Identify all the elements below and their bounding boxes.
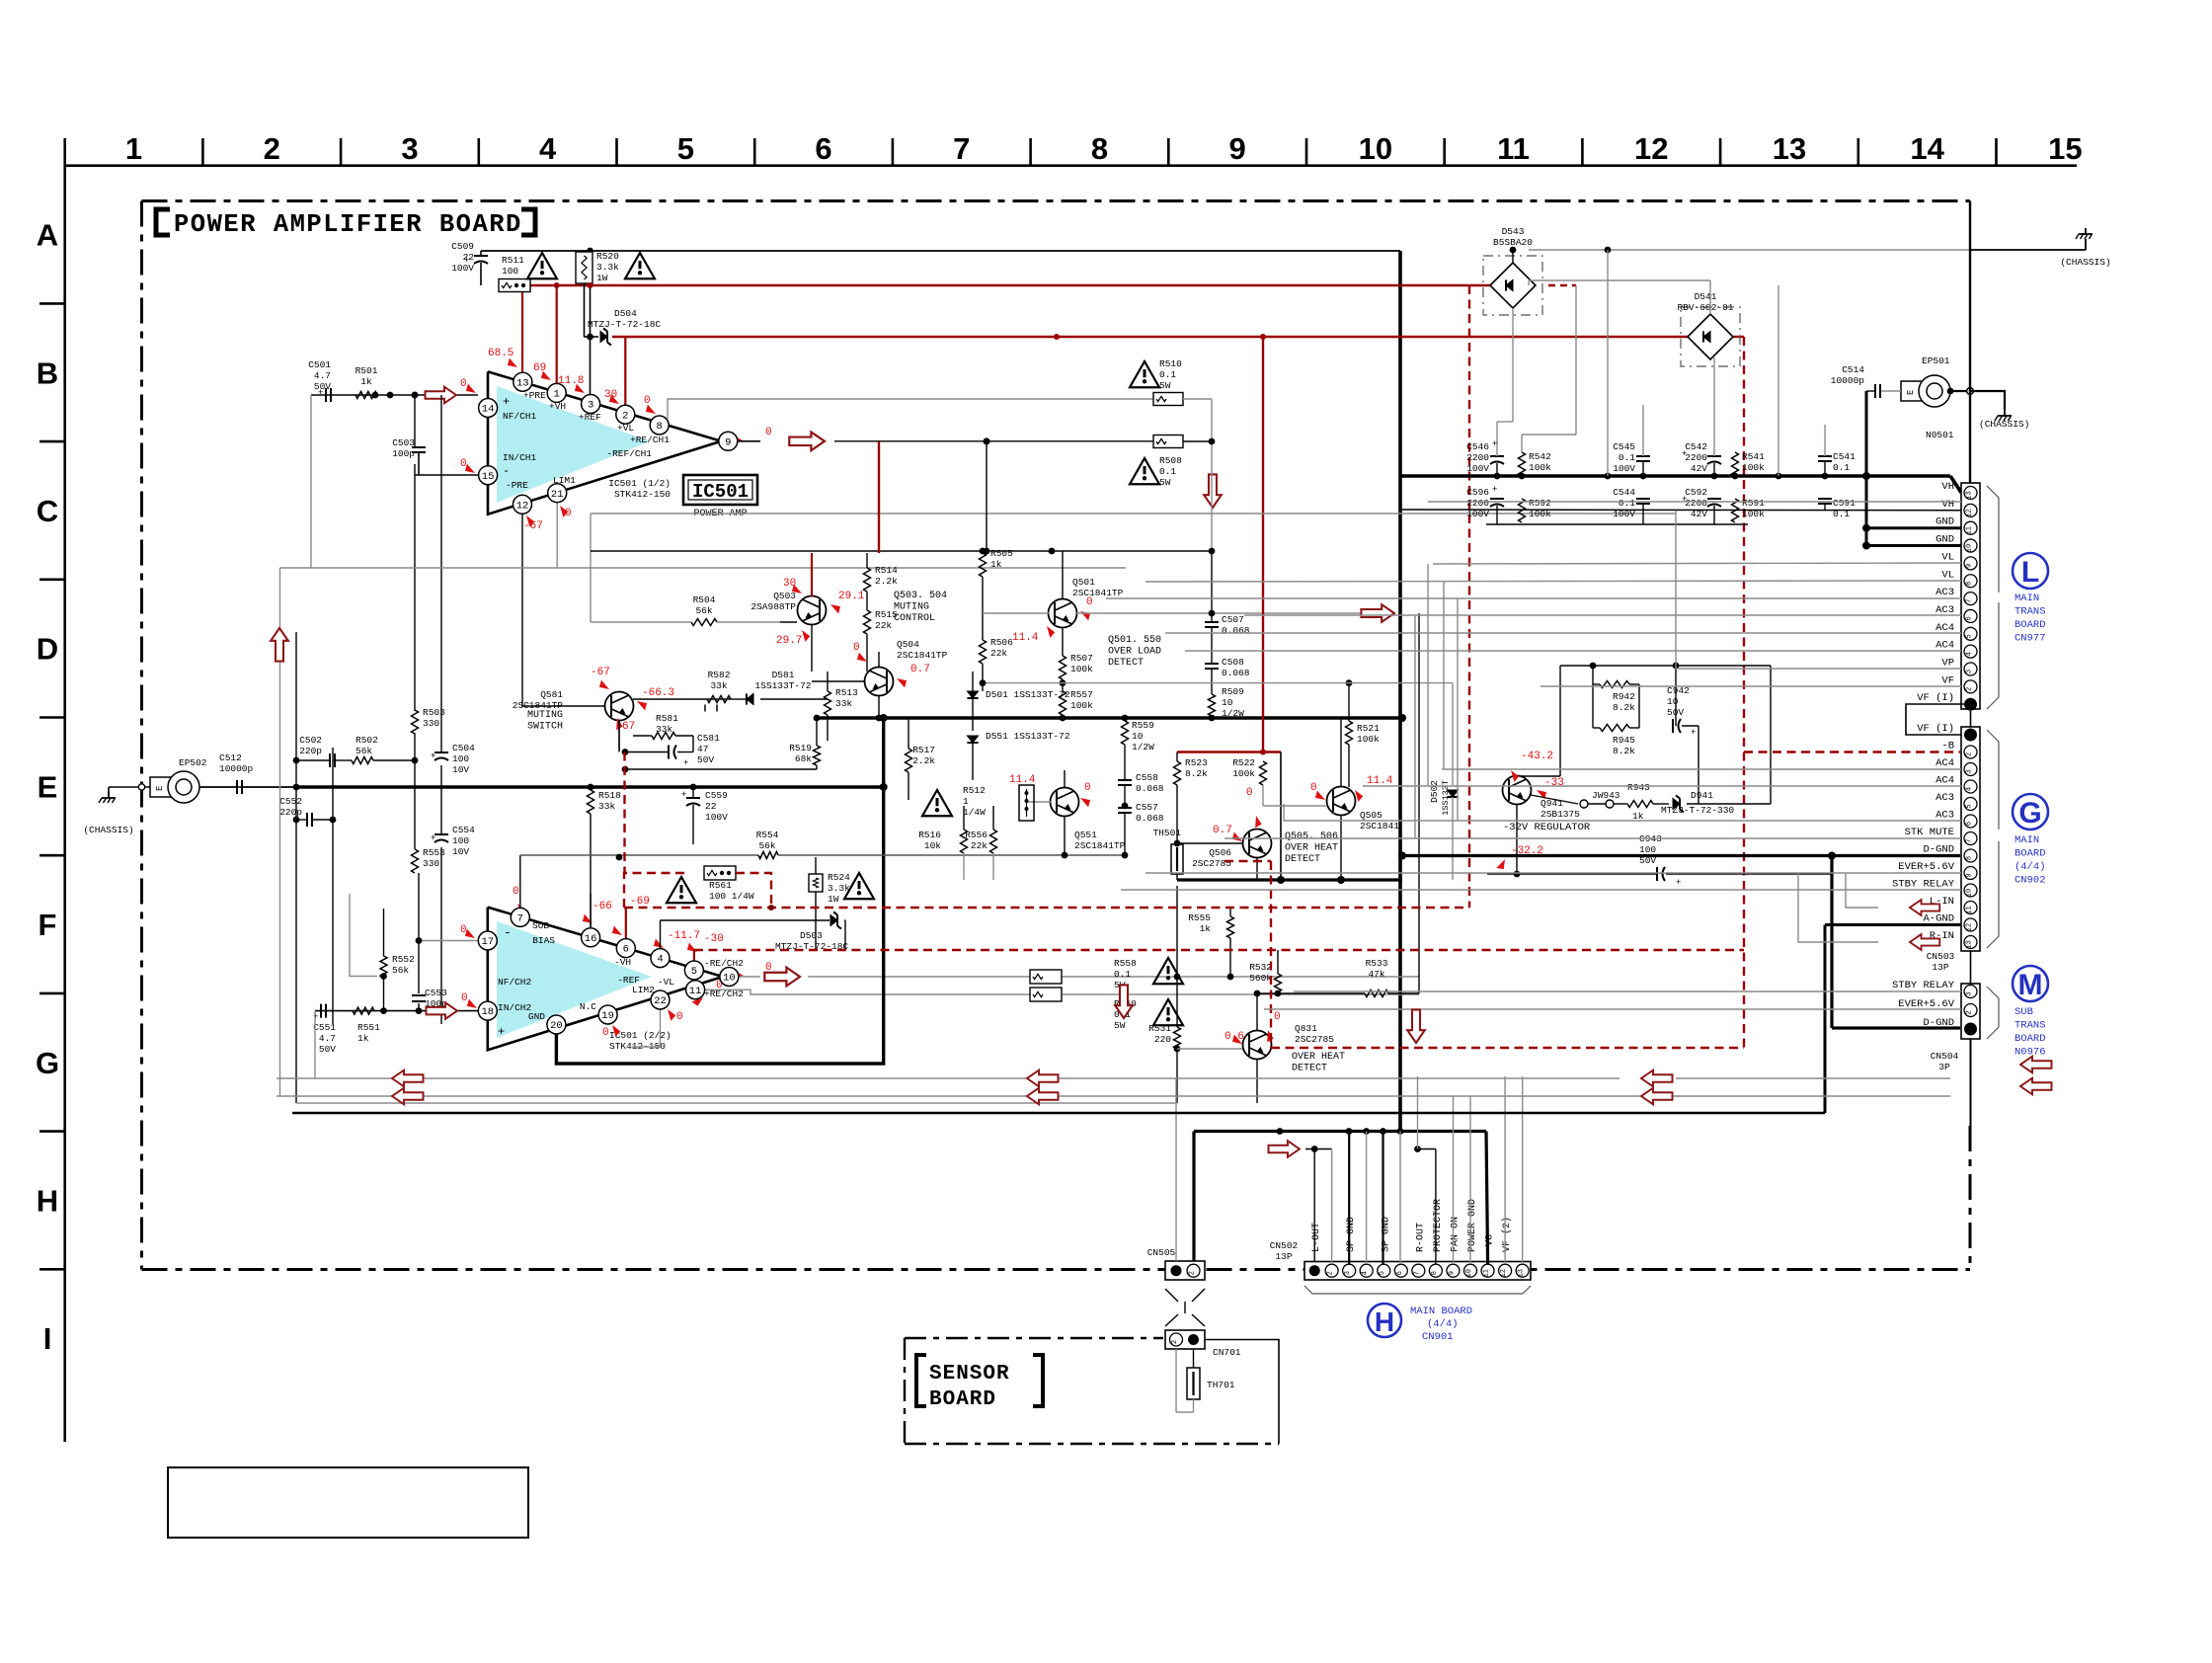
- svg-text:C514: C514: [1842, 364, 1864, 375]
- svg-text:+: +: [464, 256, 469, 266]
- svg-text:2: 2: [1966, 1010, 1974, 1014]
- svg-text:R559: R559: [1132, 720, 1154, 731]
- svg-text:6: 6: [815, 131, 831, 166]
- svg-text:5: 5: [1966, 804, 1974, 808]
- svg-text:VF (I): VF (I): [1917, 692, 1954, 704]
- svg-text:10000p: 10000p: [219, 763, 254, 774]
- svg-text:N0976: N0976: [2014, 1047, 2046, 1059]
- svg-text:9: 9: [1966, 564, 1974, 568]
- svg-text:TH701: TH701: [1207, 1380, 1235, 1390]
- svg-text:0.1: 0.1: [1833, 462, 1850, 473]
- svg-text:MUTING: MUTING: [894, 602, 929, 613]
- svg-text:15: 15: [2048, 131, 2082, 166]
- svg-text:11: 11: [1966, 526, 1974, 534]
- svg-text:33k: 33k: [598, 801, 615, 812]
- svg-text:2: 2: [264, 131, 280, 166]
- svg-text:10: 10: [1132, 731, 1144, 742]
- svg-text:560k: 560k: [1249, 973, 1272, 984]
- svg-text:-66: -66: [592, 901, 612, 912]
- svg-text:AC4: AC4: [1935, 622, 1954, 634]
- svg-text:Q501. 550: Q501. 550: [1108, 635, 1161, 646]
- svg-text:R524: R524: [828, 872, 850, 883]
- svg-text:42V: 42V: [1691, 463, 1707, 474]
- svg-text:0.1: 0.1: [1619, 498, 1635, 509]
- svg-text:L-OUT: L-OUT: [1311, 1223, 1322, 1252]
- svg-text:R519: R519: [789, 743, 812, 753]
- svg-text:-: -: [504, 925, 512, 940]
- svg-text:EP501: EP501: [1922, 356, 1950, 366]
- svg-text:D504: D504: [614, 308, 637, 319]
- svg-text:SUB: SUB: [532, 920, 549, 931]
- svg-text:EVER+5.6V: EVER+5.6V: [1898, 998, 1954, 1010]
- svg-text:3: 3: [1966, 991, 1974, 995]
- svg-text:B5SBA20: B5SBA20: [1493, 237, 1533, 248]
- svg-text:2200: 2200: [1466, 498, 1489, 509]
- svg-text:8: 8: [657, 421, 663, 433]
- svg-text:0: 0: [1274, 1011, 1281, 1023]
- svg-text:12: 12: [1634, 131, 1668, 166]
- svg-text:R513: R513: [835, 687, 858, 698]
- svg-text:+PRE: +PRE: [523, 390, 546, 401]
- svg-text:11: 11: [1497, 131, 1530, 166]
- svg-text:4.7: 4.7: [319, 1033, 336, 1044]
- svg-text:+: +: [431, 752, 435, 761]
- svg-text:D: D: [37, 632, 58, 667]
- svg-text:Q503: Q503: [773, 591, 796, 601]
- svg-text:7: 7: [1966, 838, 1974, 842]
- svg-text:CONTROL: CONTROL: [894, 613, 935, 624]
- svg-text:STK412-150: STK412-150: [614, 489, 671, 500]
- svg-text:BOARD: BOARD: [2014, 848, 2046, 860]
- svg-text:0: 0: [1310, 782, 1317, 794]
- svg-text:13: 13: [1966, 940, 1974, 948]
- svg-text:D-GND: D-GND: [1923, 844, 1954, 856]
- svg-text:FAN ON: FAN ON: [1451, 1217, 1461, 1252]
- svg-text:10: 10: [1966, 889, 1974, 897]
- svg-text:8.2k: 8.2k: [1185, 768, 1208, 779]
- svg-text:SENSOR: SENSOR: [929, 1363, 1010, 1386]
- svg-text:0.068: 0.068: [1136, 813, 1164, 824]
- svg-text:Q581: Q581: [540, 689, 563, 700]
- svg-text:-67: -67: [591, 667, 610, 678]
- svg-text:R942: R942: [1613, 691, 1635, 702]
- svg-text:C559: C559: [705, 790, 728, 801]
- svg-text:C512: C512: [219, 752, 242, 763]
- svg-text:GND: GND: [1935, 516, 1954, 528]
- svg-text:0: 0: [1246, 787, 1253, 799]
- svg-text:POWER GND: POWER GND: [1467, 1199, 1478, 1252]
- svg-text:N.C: N.C: [580, 1001, 596, 1012]
- svg-text:0.7: 0.7: [1213, 825, 1232, 836]
- svg-text:C508: C508: [1222, 657, 1244, 668]
- svg-text:0.7: 0.7: [910, 664, 930, 675]
- svg-text:TRANS: TRANS: [2014, 1020, 2046, 1032]
- svg-text:2: 2: [1171, 1340, 1179, 1344]
- svg-text:C501: C501: [308, 359, 331, 370]
- svg-text:8.2k: 8.2k: [1613, 746, 1635, 756]
- svg-text:-11.7: -11.7: [668, 930, 700, 942]
- svg-text:SP GND: SP GND: [1346, 1217, 1357, 1252]
- svg-text:100 1/4W: 100 1/4W: [709, 891, 754, 902]
- svg-text:12: 12: [1966, 509, 1974, 516]
- svg-text:R531: R531: [1148, 1023, 1171, 1034]
- svg-text:4: 4: [1966, 787, 1974, 791]
- svg-text:22k: 22k: [875, 620, 892, 631]
- svg-text:1W: 1W: [828, 894, 839, 905]
- svg-text:33k: 33k: [656, 724, 672, 735]
- svg-text:C596: C596: [1466, 487, 1489, 498]
- svg-text:5: 5: [1966, 634, 1974, 638]
- svg-text:13P: 13P: [1932, 962, 1948, 973]
- svg-text:BIAS: BIAS: [532, 935, 555, 946]
- svg-text:56k: 56k: [758, 840, 775, 851]
- svg-text:C504: C504: [452, 743, 475, 753]
- svg-text:DETECT: DETECT: [1292, 1064, 1327, 1074]
- svg-text:NF/CH1: NF/CH1: [503, 411, 537, 422]
- svg-text:VF (I): VF (I): [1917, 723, 1954, 735]
- svg-text:2.2k: 2.2k: [875, 576, 898, 587]
- svg-text:R552: R552: [392, 954, 415, 965]
- svg-text:12: 12: [1500, 1269, 1508, 1277]
- svg-text:GND: GND: [1935, 534, 1954, 546]
- svg-text:H: H: [1375, 1307, 1394, 1337]
- svg-text:VP: VP: [1941, 658, 1954, 670]
- svg-text:BOARD: BOARD: [2014, 619, 2046, 631]
- svg-text:100k: 100k: [1070, 700, 1093, 711]
- svg-text:AC4: AC4: [1935, 757, 1954, 769]
- svg-text:2SC2785: 2SC2785: [1295, 1034, 1334, 1045]
- svg-text:0: 0: [1084, 782, 1091, 794]
- svg-text:VH: VH: [1941, 499, 1954, 511]
- svg-text:Q503. 504: Q503. 504: [894, 591, 947, 601]
- svg-text:33k: 33k: [710, 680, 727, 691]
- svg-text:1k: 1k: [990, 559, 1002, 570]
- svg-text:R-OUT: R-OUT: [1415, 1223, 1426, 1252]
- svg-text:2SC2785: 2SC2785: [1192, 858, 1231, 869]
- svg-text:(CHASSIS): (CHASSIS): [2060, 257, 2110, 268]
- svg-text:0.1: 0.1: [1159, 369, 1176, 380]
- svg-text:56k: 56k: [392, 965, 409, 976]
- svg-text:MUTING: MUTING: [527, 710, 563, 721]
- svg-text:R510: R510: [1159, 358, 1182, 369]
- svg-text:+: +: [1691, 728, 1696, 738]
- svg-text:42V: 42V: [1691, 509, 1707, 519]
- svg-text:R517: R517: [912, 745, 935, 755]
- svg-text:D581: D581: [772, 670, 795, 680]
- svg-text:13: 13: [516, 377, 529, 389]
- svg-text:20: 20: [550, 1020, 563, 1032]
- svg-text:21: 21: [551, 489, 564, 501]
- svg-text:19: 19: [601, 1010, 614, 1022]
- svg-text:2SC1841TP: 2SC1841TP: [1072, 588, 1124, 598]
- svg-text:67: 67: [622, 721, 635, 733]
- svg-text:0: 0: [676, 1011, 683, 1023]
- svg-text:IC501 (1/2): IC501 (1/2): [608, 478, 671, 489]
- svg-text:-PRE: -PRE: [506, 480, 528, 491]
- svg-text:A-GND: A-GND: [1923, 913, 1954, 925]
- svg-text:PROTECTOR: PROTECTOR: [1433, 1199, 1444, 1252]
- svg-text:-69: -69: [630, 896, 650, 908]
- svg-text:TRANS: TRANS: [2014, 606, 2046, 618]
- svg-text:18: 18: [481, 1006, 494, 1018]
- svg-text:R501: R501: [355, 365, 378, 376]
- svg-text:56k: 56k: [695, 605, 712, 616]
- svg-text:11: 11: [689, 986, 702, 997]
- svg-text:-: -: [503, 464, 510, 478]
- svg-text:R518: R518: [598, 790, 621, 801]
- svg-text:29.1: 29.1: [838, 591, 865, 602]
- svg-text:R541: R541: [1742, 451, 1765, 462]
- svg-text:DETECT: DETECT: [1285, 854, 1320, 865]
- svg-text:29.7: 29.7: [776, 635, 802, 647]
- svg-text:MAIN: MAIN: [2014, 834, 2039, 846]
- svg-text:(4/4): (4/4): [1427, 1318, 1459, 1330]
- svg-text:3: 3: [1966, 769, 1974, 773]
- svg-text:C541: C541: [1833, 451, 1856, 462]
- svg-text:50V: 50V: [1667, 707, 1684, 718]
- svg-text:C544: C544: [1613, 487, 1635, 498]
- svg-text:33k: 33k: [835, 698, 852, 709]
- svg-text:D503: D503: [800, 930, 823, 941]
- svg-text:CN901: CN901: [1422, 1331, 1454, 1343]
- svg-text:+: +: [1492, 485, 1497, 495]
- svg-text:2200: 2200: [1685, 498, 1707, 509]
- svg-text:STK MUTE: STK MUTE: [1905, 827, 1954, 838]
- svg-text:C: C: [37, 494, 58, 528]
- svg-text:R943: R943: [1627, 782, 1650, 793]
- svg-text:R507: R507: [1070, 653, 1093, 664]
- svg-text:R509: R509: [1222, 686, 1244, 697]
- svg-text:100: 100: [452, 835, 469, 846]
- svg-text:IC501: IC501: [692, 481, 749, 503]
- svg-text:14: 14: [1910, 131, 1944, 166]
- svg-text:0: 0: [461, 992, 468, 1004]
- svg-text:EVER+5.6V: EVER+5.6V: [1898, 861, 1954, 873]
- svg-text:0.1: 0.1: [1159, 466, 1176, 477]
- svg-text:4: 4: [1362, 1271, 1370, 1275]
- svg-text:M: M: [2018, 969, 2043, 1001]
- svg-text:R533: R533: [1366, 958, 1388, 969]
- svg-text:8: 8: [1431, 1271, 1439, 1275]
- svg-text:+: +: [498, 1025, 505, 1039]
- svg-text:10: 10: [1667, 696, 1679, 707]
- svg-text:+RE/CH1: +RE/CH1: [630, 435, 670, 445]
- svg-text:100k: 100k: [1742, 509, 1765, 519]
- svg-text:220p: 220p: [299, 746, 322, 756]
- svg-text:2: 2: [622, 410, 628, 422]
- svg-text:-B: -B: [1941, 741, 1954, 752]
- svg-text:100: 100: [452, 753, 469, 764]
- svg-text:10k: 10k: [924, 840, 941, 851]
- svg-text:10: 10: [1222, 697, 1233, 708]
- svg-text:OVER HEAT: OVER HEAT: [1292, 1052, 1345, 1063]
- svg-text:AC3: AC3: [1935, 810, 1954, 822]
- svg-text:R561: R561: [709, 880, 732, 891]
- svg-text:OVER HEAT: OVER HEAT: [1285, 843, 1338, 854]
- svg-text:8: 8: [1966, 856, 1974, 860]
- svg-text:E: E: [38, 769, 58, 804]
- svg-text:13: 13: [1773, 131, 1806, 166]
- svg-text:R508: R508: [1159, 455, 1182, 466]
- svg-text:+: +: [1492, 439, 1497, 449]
- svg-text:R945: R945: [1613, 735, 1635, 746]
- svg-text:7: 7: [953, 131, 970, 166]
- svg-text:6: 6: [623, 944, 629, 956]
- svg-text:Q505. 506: Q505. 506: [1285, 831, 1338, 842]
- svg-text:R520: R520: [596, 251, 619, 262]
- svg-text:-RE/CH2: -RE/CH2: [704, 958, 744, 969]
- svg-text:R506: R506: [990, 637, 1013, 648]
- svg-text:100: 100: [502, 266, 518, 277]
- svg-text:0.068: 0.068: [1222, 668, 1250, 678]
- svg-text:100k: 100k: [1529, 509, 1551, 519]
- svg-text:G: G: [36, 1046, 59, 1080]
- svg-text:C546: C546: [1466, 441, 1489, 452]
- svg-text:100: 100: [1639, 844, 1656, 855]
- svg-text:0: 0: [513, 886, 519, 898]
- svg-text:2: 2: [1966, 687, 1974, 691]
- svg-text:100p: 100p: [392, 448, 415, 459]
- svg-text:C553: C553: [425, 988, 447, 998]
- svg-text:100V: 100V: [1466, 463, 1489, 474]
- svg-text:10: 10: [1359, 131, 1392, 166]
- svg-text:4.7: 4.7: [314, 370, 331, 381]
- svg-text:Q831: Q831: [1295, 1023, 1317, 1034]
- svg-text:R555: R555: [1188, 912, 1211, 923]
- svg-text:3: 3: [401, 131, 418, 166]
- svg-text:SUB: SUB: [2014, 1006, 2033, 1018]
- svg-text:100k: 100k: [1742, 462, 1765, 473]
- svg-text:R554: R554: [756, 830, 779, 840]
- svg-text:9: 9: [1229, 131, 1246, 166]
- svg-text:10: 10: [723, 973, 736, 985]
- svg-text:AC4: AC4: [1935, 640, 1954, 652]
- svg-text:50V: 50V: [314, 381, 331, 392]
- svg-text:15: 15: [482, 471, 495, 483]
- svg-text:3: 3: [588, 400, 593, 412]
- svg-text:10000p: 10000p: [1831, 375, 1865, 386]
- svg-text:+: +: [683, 758, 688, 768]
- svg-text:VL: VL: [1941, 551, 1954, 563]
- svg-text:16: 16: [585, 933, 597, 945]
- svg-text:100k: 100k: [1232, 768, 1255, 779]
- svg-text:VL: VL: [1941, 569, 1954, 581]
- svg-text:5: 5: [691, 966, 697, 978]
- svg-text:220: 220: [1154, 1034, 1171, 1045]
- svg-text:10: 10: [1966, 544, 1974, 552]
- svg-text:C592: C592: [1685, 487, 1707, 498]
- svg-text:22: 22: [705, 801, 717, 812]
- svg-text:C581: C581: [697, 733, 720, 744]
- svg-text:11.4: 11.4: [1012, 632, 1039, 644]
- svg-text:R521: R521: [1357, 723, 1380, 734]
- svg-text:0: 0: [460, 458, 467, 470]
- svg-text:R504: R504: [693, 594, 716, 605]
- svg-text:220p: 220p: [279, 807, 302, 818]
- svg-text:9: 9: [1448, 1271, 1456, 1275]
- svg-text:R592: R592: [1529, 498, 1551, 509]
- svg-text:R581: R581: [656, 713, 678, 724]
- svg-text:IN/CH2: IN/CH2: [498, 1002, 532, 1013]
- svg-text:4: 4: [657, 954, 663, 966]
- svg-text:1W: 1W: [596, 273, 608, 283]
- svg-text:-66.3: -66.3: [642, 687, 674, 699]
- svg-text:12: 12: [1966, 923, 1974, 931]
- svg-text:MTZJ-T-72-18C: MTZJ-T-72-18C: [588, 319, 661, 330]
- svg-text:R503: R503: [423, 707, 445, 718]
- svg-text:7: 7: [517, 913, 523, 925]
- svg-text:STBY RELAY: STBY RELAY: [1892, 879, 1955, 891]
- svg-text:Q505: Q505: [1360, 810, 1382, 821]
- svg-text:VH: VH: [1941, 481, 1954, 493]
- svg-text:+: +: [1676, 878, 1681, 888]
- svg-text:6: 6: [1966, 616, 1974, 620]
- svg-text:4: 4: [539, 131, 557, 166]
- svg-text:D501 1SS133T-72: D501 1SS133T-72: [986, 689, 1070, 700]
- svg-text:Q501: Q501: [1072, 577, 1095, 588]
- svg-text:0: 0: [853, 642, 860, 654]
- svg-text:0: 0: [765, 427, 772, 438]
- svg-text:MAIN: MAIN: [2014, 593, 2039, 604]
- svg-text:Q551: Q551: [1074, 830, 1097, 840]
- svg-text:100V: 100V: [451, 263, 474, 274]
- svg-text:EP502: EP502: [179, 757, 207, 768]
- svg-text:NF/CH2: NF/CH2: [498, 977, 532, 988]
- svg-text:DETECT: DETECT: [1108, 658, 1144, 669]
- svg-text:0: 0: [460, 378, 467, 390]
- svg-text:13: 13: [1966, 491, 1974, 499]
- svg-text:D543: D543: [1502, 226, 1525, 237]
- svg-text:R511: R511: [502, 255, 524, 266]
- svg-text:10: 10: [1465, 1269, 1473, 1277]
- svg-text:-43.2: -43.2: [1521, 751, 1553, 762]
- svg-text:68k: 68k: [795, 753, 812, 764]
- svg-text:9: 9: [1966, 873, 1974, 877]
- svg-text:-VL: -VL: [658, 977, 674, 988]
- svg-text:2SC1841TP: 2SC1841TP: [897, 650, 948, 661]
- svg-text:RBV-602-01: RBV-602-01: [1677, 302, 1733, 313]
- svg-text:STBY RELAY: STBY RELAY: [1892, 980, 1955, 991]
- svg-text:17: 17: [481, 936, 494, 948]
- svg-text:+: +: [313, 1012, 318, 1022]
- svg-text:L: L: [2021, 556, 2039, 589]
- svg-text:MAIN BOARD: MAIN BOARD: [1410, 1306, 1472, 1317]
- svg-text:68.5: 68.5: [488, 348, 513, 359]
- svg-text:N0501: N0501: [1926, 430, 1954, 440]
- svg-text:56k: 56k: [355, 746, 372, 756]
- svg-text:BOARD: BOARD: [2014, 1033, 2046, 1045]
- svg-text:2SC1841TP: 2SC1841TP: [1074, 840, 1126, 851]
- svg-text:I: I: [43, 1321, 52, 1356]
- svg-text:2.2k: 2.2k: [912, 755, 935, 766]
- svg-text:C507: C507: [1222, 614, 1244, 625]
- svg-text:R557: R557: [1070, 689, 1093, 700]
- svg-text:AC3: AC3: [1935, 792, 1954, 804]
- svg-text:R553: R553: [423, 847, 445, 858]
- svg-text:R532: R532: [1249, 962, 1272, 973]
- svg-text:IN/CH1: IN/CH1: [503, 452, 537, 463]
- svg-text:8: 8: [1091, 131, 1108, 166]
- svg-text:BOARD: BOARD: [929, 1388, 996, 1411]
- svg-text:C545: C545: [1613, 441, 1635, 452]
- svg-text:5: 5: [677, 131, 694, 166]
- svg-text:47: 47: [697, 744, 708, 754]
- svg-text:(CHASSIS): (CHASSIS): [1979, 419, 2029, 430]
- svg-text:330: 330: [423, 858, 439, 869]
- svg-text:22k: 22k: [971, 840, 987, 851]
- svg-text:Q504: Q504: [897, 639, 919, 650]
- svg-text:R512: R512: [963, 785, 986, 796]
